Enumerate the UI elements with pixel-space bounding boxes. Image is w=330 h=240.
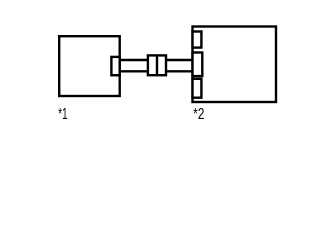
wire — [120, 60, 148, 71]
inline connector — [148, 55, 166, 75]
svg-text:*1: *1 — [58, 106, 67, 123]
component *1 box — [59, 36, 119, 96]
terminal 3 on *2 — [193, 79, 202, 98]
wire — [166, 60, 193, 71]
component *2 box — [193, 27, 277, 103]
svg-text:*2: *2 — [193, 106, 204, 123]
connector terminal on *1 — [111, 57, 119, 75]
terminal 2 on *2 — [193, 53, 203, 77]
terminal 1 on *2 — [193, 32, 202, 48]
